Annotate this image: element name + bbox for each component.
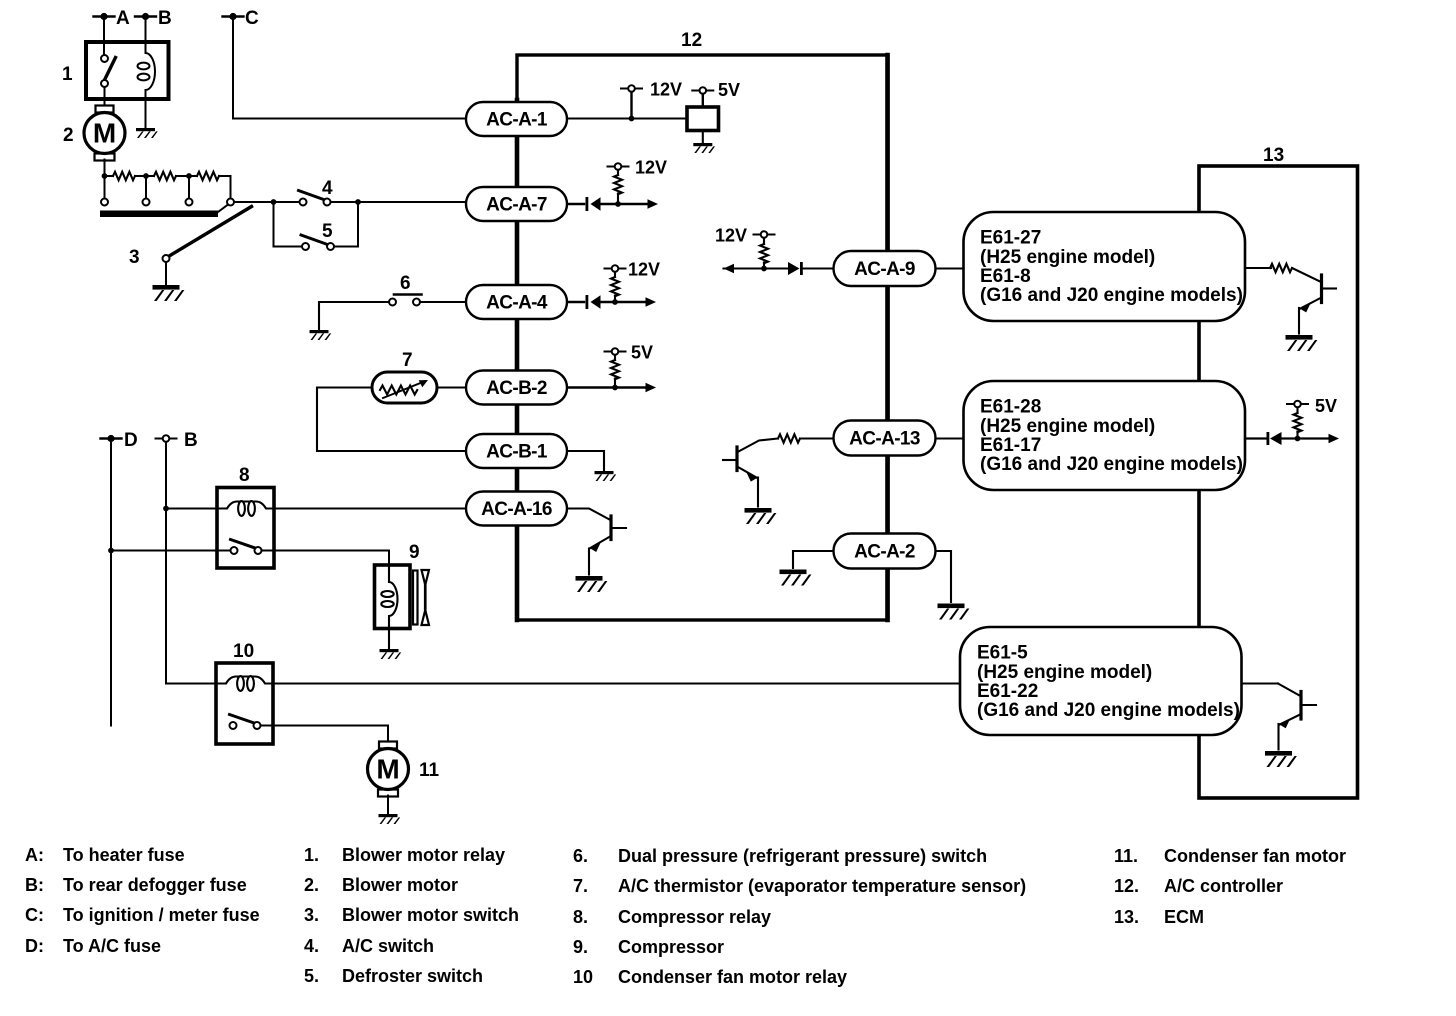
svg-text:6: 6 <box>400 273 411 294</box>
connector pill AC-A-7 <box>466 187 567 221</box>
transistor Q4 at E61-5 <box>1242 684 1317 750</box>
svg-text:AC-A-13: AC-A-13 <box>849 429 920 450</box>
svg-text:(G16 and J20 engine models): (G16 and J20 engine models) <box>980 454 1243 475</box>
wire C to AC-A-1 <box>233 17 466 119</box>
svg-text:11: 11 <box>419 760 440 781</box>
legend column 2: items 1-5 <box>304 845 519 986</box>
node on AC-B-2 row <box>612 385 618 391</box>
connector pill AC-A-4 <box>466 285 567 319</box>
node after switch 4 <box>355 199 361 205</box>
transistor Q1 at AC-A-16 <box>567 509 626 575</box>
svg-text:5V: 5V <box>631 343 653 363</box>
svg-text:AC-A-7: AC-A-7 <box>486 195 547 216</box>
wire AC-A-1 row to regulator box <box>567 117 687 119</box>
svg-text:12.: 12. <box>1114 876 1139 896</box>
svg-text:12: 12 <box>681 30 702 51</box>
motor M1 blower motor (2) <box>63 106 125 177</box>
5V pull-up at AC-B-2 <box>605 343 654 388</box>
svg-text:C: C <box>245 8 259 29</box>
wire B down to relay 10 coil <box>165 442 167 684</box>
svg-text:12V: 12V <box>650 80 682 100</box>
diode at AC-A-9 <box>788 262 834 275</box>
svg-text:AC-A-1: AC-A-1 <box>486 110 548 131</box>
wire switch 4 to AC-A-7 <box>331 201 467 203</box>
svg-text:5V: 5V <box>1315 396 1337 416</box>
svg-text:5: 5 <box>322 221 333 242</box>
wire relay 10 coil to ECM E61-5 <box>274 683 962 685</box>
wire relay 8 coil to AC-A-16 <box>275 508 467 510</box>
svg-text:7: 7 <box>402 350 413 371</box>
svg-text:A: A <box>116 8 130 29</box>
svg-text:Compressor: Compressor <box>618 937 724 957</box>
svg-text:Compressor relay: Compressor relay <box>618 907 771 927</box>
ground under Q2 <box>745 508 777 524</box>
svg-text:5.: 5. <box>304 966 319 986</box>
connector pill AC-A-1 <box>466 102 567 136</box>
svg-text:8: 8 <box>239 465 250 486</box>
svg-text:13: 13 <box>1263 145 1284 166</box>
svg-text:B: B <box>158 8 172 29</box>
ground right of AC-A-2 <box>938 604 970 620</box>
terminal B (to rear defogger fuse) <box>135 8 172 29</box>
wire 5V to regulator box <box>702 94 704 107</box>
svg-text:Dual pressure (refrigerant pre: Dual pressure (refrigerant pressure) swi… <box>618 846 987 866</box>
terminal B2 (to rear defogger fuse) <box>156 430 198 451</box>
svg-text:Defroster switch: Defroster switch <box>342 966 483 986</box>
connector pill E61-27 / E61-8 <box>964 212 1246 321</box>
svg-text:6.: 6. <box>573 846 588 866</box>
wire to relay 8 switch <box>111 550 230 552</box>
wire 12V down to node <box>630 92 632 119</box>
node D to relay 8 switch <box>108 548 114 554</box>
svg-text:(G16 and J20 engine models): (G16 and J20 engine models) <box>980 285 1243 306</box>
wire switch 5 up to node <box>334 202 358 247</box>
wire AC-A-2 right to ground <box>935 551 951 602</box>
A/C thermistor (7) <box>317 350 466 451</box>
svg-text:4.: 4. <box>304 936 319 956</box>
svg-text:A/C thermistor (evaporator tem: A/C thermistor (evaporator temperature s… <box>618 876 1026 896</box>
terminal A (to heater fuse) <box>94 8 131 29</box>
arrow line AC-A-4 row <box>601 297 657 307</box>
12V pull-up at AC-A-9 <box>715 226 775 269</box>
svg-text:AC-A-16: AC-A-16 <box>481 499 552 520</box>
ground at AC-B-1 <box>595 471 617 481</box>
ground at dual pressure switch <box>310 330 332 340</box>
svg-text:E61-8: E61-8 <box>980 266 1031 287</box>
ground under Q4 <box>1265 751 1297 767</box>
svg-text:(H25 engine model): (H25 engine model) <box>980 416 1155 437</box>
diode at AC-A-4 <box>567 295 601 309</box>
arrow line AC-A-7 row <box>601 199 659 209</box>
svg-text:E61-17: E61-17 <box>980 435 1041 456</box>
svg-text:AC-A-9: AC-A-9 <box>854 259 915 280</box>
wire to relay 8 coil <box>166 508 218 510</box>
A/C controller box (12) <box>517 30 888 620</box>
ground under Q1 <box>576 576 608 592</box>
svg-text:E61-27: E61-27 <box>980 228 1041 249</box>
regulator box component <box>687 107 719 131</box>
ground under condenser fan motor <box>379 814 401 824</box>
svg-text:D:: D: <box>25 936 44 956</box>
wire B to relay 1 coil <box>145 17 147 54</box>
svg-text:12V: 12V <box>635 158 667 178</box>
svg-text:B: B <box>184 430 198 451</box>
relay K1 blower motor relay (1) <box>62 42 169 107</box>
ground left of AC-A-2 <box>780 570 812 586</box>
svg-text:13.: 13. <box>1114 907 1139 927</box>
terminal C (to ignition / meter fuse) <box>223 8 260 29</box>
dual pressure switch (6) <box>319 273 466 329</box>
svg-text:7.: 7. <box>573 876 588 896</box>
svg-text:Condenser fan motor relay: Condenser fan motor relay <box>618 967 847 987</box>
5V terminal at regulator <box>692 80 740 100</box>
svg-text:3: 3 <box>129 247 140 268</box>
relay K3 condenser fan motor relay (10) <box>216 641 274 744</box>
relay K2 compressor relay (8) <box>217 465 275 568</box>
connector pill AC-A-16 <box>466 492 567 526</box>
blower switch wiper track bar <box>100 211 218 218</box>
svg-text:4: 4 <box>322 178 333 199</box>
diode at E61-28 <box>1245 432 1330 445</box>
arrow line AC-A-9 row <box>724 264 789 274</box>
node on AC-A-4 row <box>612 299 618 305</box>
legend column 3: items 6-10 <box>573 846 1026 987</box>
connector pill E61-5 / E61-22 <box>960 627 1242 735</box>
node on E61-28 row <box>1295 436 1301 442</box>
svg-text:1.: 1. <box>304 845 319 865</box>
node at switch 4/5 branch <box>271 199 277 205</box>
connector pill E61-28 / E61-17 <box>964 381 1246 490</box>
defroster switch (5) <box>274 221 335 250</box>
wire regulator to ground <box>702 131 704 143</box>
svg-text:ECM: ECM <box>1164 907 1204 927</box>
wire branch down to defroster switch <box>273 202 275 247</box>
12V pull-up at AC-A-4 <box>605 260 661 303</box>
ground under regulator <box>693 143 715 153</box>
svg-text:3.: 3. <box>304 905 319 925</box>
svg-text:Blower motor: Blower motor <box>342 875 458 895</box>
wire A to relay 1 <box>103 17 105 57</box>
svg-text:Blower motor relay: Blower motor relay <box>342 845 505 865</box>
ground under compressor <box>380 649 402 659</box>
blower motor switch (3) lever <box>129 205 252 285</box>
svg-text:2: 2 <box>63 125 74 146</box>
svg-text:AC-A-4: AC-A-4 <box>486 293 548 314</box>
svg-text:A/C switch: A/C switch <box>342 936 434 956</box>
svg-text:A/C controller: A/C controller <box>1164 876 1283 896</box>
svg-text:12V: 12V <box>628 260 660 280</box>
svg-text:12V: 12V <box>715 226 747 246</box>
svg-text:B:: B: <box>25 875 44 895</box>
12V pull-up at AC-A-7 <box>608 158 668 205</box>
compressor (9) <box>375 542 420 629</box>
svg-text:8.: 8. <box>573 907 588 927</box>
node on AC-A-9 row <box>761 266 767 272</box>
connector pill AC-B-1 <box>466 434 567 468</box>
connector pill AC-A-13 <box>834 421 936 456</box>
wire D down to relay 10 switch <box>110 439 112 726</box>
svg-text:E61-22: E61-22 <box>977 681 1038 702</box>
svg-text:1: 1 <box>62 64 73 85</box>
svg-text:(G16 and J20 engine models): (G16 and J20 engine models) <box>977 700 1240 721</box>
wire AC-A-13 to ECM pill <box>936 437 966 439</box>
transistor Q3 at E61-27 <box>1245 264 1336 334</box>
svg-text:E61-5: E61-5 <box>977 643 1028 664</box>
ECM box (13) <box>1199 145 1358 798</box>
svg-text:5V: 5V <box>718 80 740 100</box>
wire relay 8 switch to compressor <box>262 551 390 567</box>
connector pill AC-A-2 <box>834 534 936 569</box>
svg-text:(H25 engine model): (H25 engine model) <box>980 247 1155 268</box>
motor M2 condenser fan motor (11) <box>368 742 440 814</box>
transistor Q2 at AC-A-13 <box>723 434 834 506</box>
svg-text:To ignition / meter fuse: To ignition / meter fuse <box>63 905 260 925</box>
svg-text:9: 9 <box>409 542 420 563</box>
ground under relay K1 coil <box>136 128 158 138</box>
connector pill AC-A-9 <box>834 251 936 286</box>
wire AC-A-9 to ECM pill <box>936 267 966 269</box>
svg-text:11.: 11. <box>1114 846 1138 866</box>
node on AC-A-1 row <box>629 116 635 122</box>
svg-text:To rear defogger fuse: To rear defogger fuse <box>63 875 247 895</box>
relay K1 coil <box>138 53 155 127</box>
ground under blower motor switch <box>153 285 185 301</box>
wire B line to relay 10 coil <box>166 683 217 685</box>
node on AC-A-7 row <box>615 201 621 207</box>
svg-text:(H25 engine model): (H25 engine model) <box>977 662 1152 683</box>
wire blower switch to A/C switch node <box>234 201 300 203</box>
5V pull-up at E61-28 <box>1287 396 1337 439</box>
svg-text:AC-B-2: AC-B-2 <box>486 378 547 399</box>
node B to relay 8 coil <box>163 506 169 512</box>
svg-text:Blower motor switch: Blower motor switch <box>342 905 519 925</box>
svg-text:To heater fuse: To heater fuse <box>63 845 185 865</box>
arrow line AC-B-2 row <box>567 383 656 393</box>
A/C switch (4) <box>299 178 334 206</box>
svg-text:To A/C fuse: To A/C fuse <box>63 936 161 956</box>
svg-text:E61-28: E61-28 <box>980 397 1041 418</box>
ground under Q3 <box>1286 335 1318 351</box>
blower resistor chain <box>101 172 234 206</box>
wire AC-A-2 left to ground <box>793 551 834 568</box>
svg-text:9.: 9. <box>573 937 588 957</box>
diode at AC-A-7 <box>567 197 601 211</box>
svg-text:Condenser fan motor: Condenser fan motor <box>1164 846 1346 866</box>
svg-text:D: D <box>124 430 138 451</box>
legend column 4: items 11-13 <box>1114 846 1346 927</box>
svg-text:C:: C: <box>25 905 44 925</box>
connector pill AC-B-2 <box>466 371 567 405</box>
svg-text:A:: A: <box>25 845 44 865</box>
svg-text:10: 10 <box>233 641 254 662</box>
wire relay 10 switch to condenser fan motor <box>261 726 389 743</box>
wire compressor to ground <box>388 628 390 648</box>
terminal D (to A/C fuse) <box>101 430 138 451</box>
svg-text:AC-B-1: AC-B-1 <box>486 442 548 463</box>
compressor clutch pulley <box>413 570 429 625</box>
wire AC-B-1 to ground <box>566 451 604 470</box>
svg-text:10: 10 <box>573 967 593 987</box>
legend column 1: fuse letters <box>25 845 260 956</box>
arrow on E61-28 row <box>1329 434 1340 444</box>
svg-text:2.: 2. <box>304 875 319 895</box>
12V terminal at AC-A-1 <box>621 80 682 100</box>
svg-text:AC-A-2: AC-A-2 <box>854 542 915 563</box>
